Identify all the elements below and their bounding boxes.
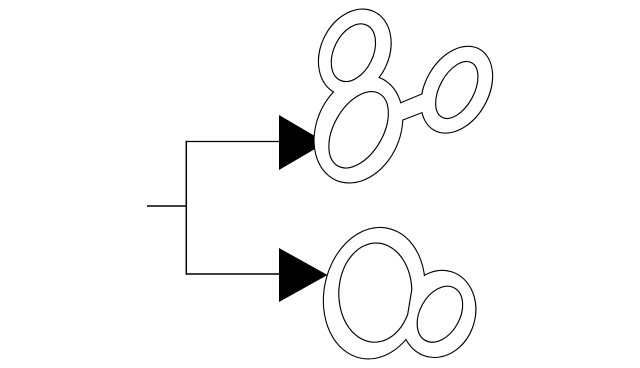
wire vertical branch (185, 141, 187, 275)
lower gasket outer outline (two merged rings) (312, 219, 486, 368)
upper gasket outer outline (three merged rings with bridge) (299, 0, 507, 196)
upper gasket top-left hole (322, 17, 384, 89)
wire top rail (186, 141, 280, 143)
wire bottom rail (186, 273, 280, 275)
upper gasket bottom-left hole (317, 81, 401, 178)
lower gasket small hole (408, 278, 472, 350)
lower gasket large hole (with flat notch on right) (339, 243, 412, 342)
upper gasket right hole (427, 55, 487, 126)
wire input stub (147, 205, 186, 207)
arrowhead pointing to lower gasket (279, 248, 328, 302)
arrowhead pointing to upper gasket (279, 115, 326, 170)
